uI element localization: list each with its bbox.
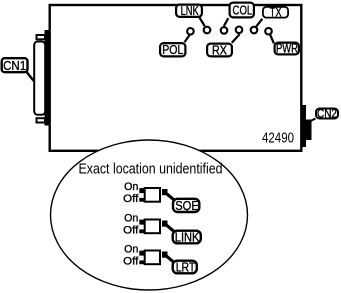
svg-text:SQE: SQE	[175, 198, 199, 213]
svg-text:CN2: CN2	[317, 109, 337, 121]
svg-text:On: On	[124, 181, 138, 193]
svg-text:LRT: LRT	[176, 260, 196, 275]
svg-text:RX: RX	[212, 44, 228, 58]
svg-text:Off: Off	[123, 256, 139, 268]
svg-text:Off: Off	[123, 225, 139, 237]
svg-text:Exact location unidentified: Exact location unidentified	[79, 161, 223, 178]
svg-text:Off: Off	[123, 193, 139, 205]
svg-text:On: On	[124, 244, 138, 256]
svg-text:LINK: LINK	[175, 230, 200, 245]
svg-text:COL: COL	[233, 4, 253, 18]
svg-text:TX: TX	[270, 6, 282, 20]
svg-text:PWR: PWR	[276, 42, 298, 56]
svg-text:LNK: LNK	[181, 4, 200, 18]
svg-text:On: On	[124, 213, 138, 225]
svg-text:CN1: CN1	[3, 58, 26, 73]
svg-text:42490: 42490	[262, 131, 294, 147]
svg-text:POL: POL	[162, 43, 183, 57]
